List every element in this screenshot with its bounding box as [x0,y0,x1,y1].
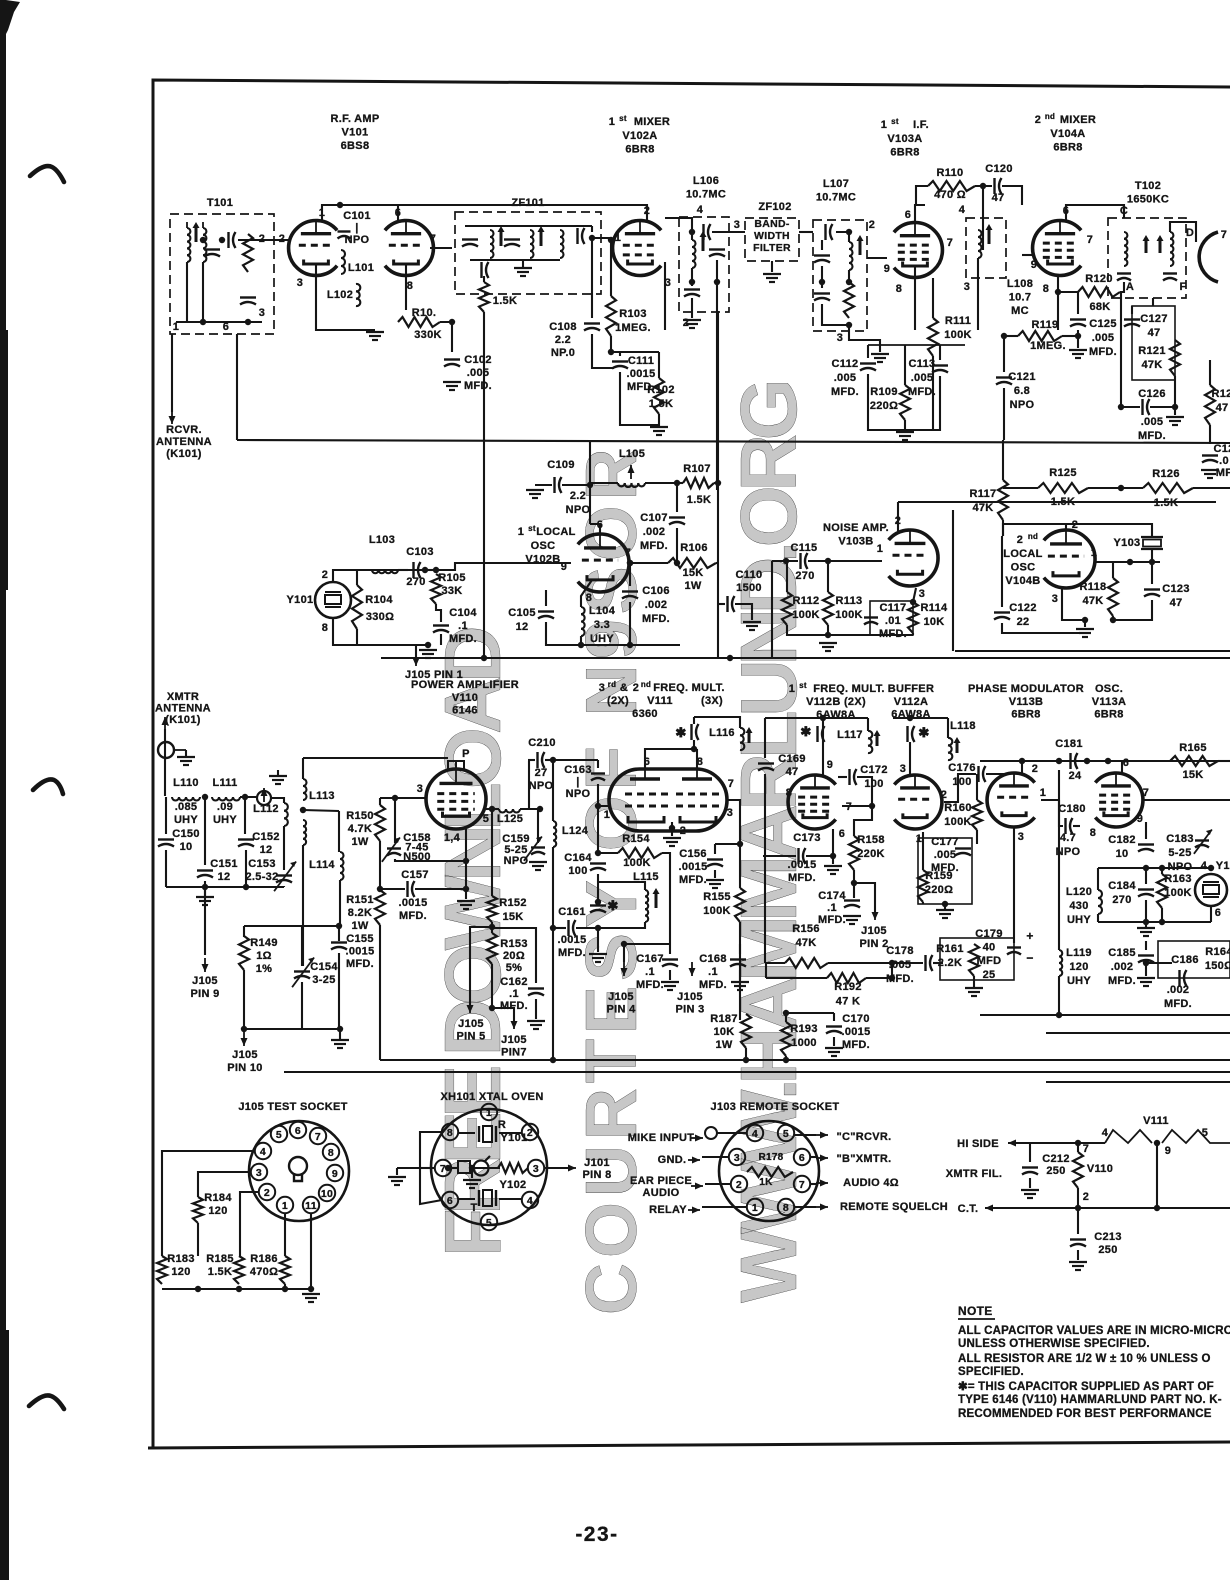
ct wire [985,1207,1230,1209]
resistor R109 [900,385,910,420]
V102B grid wire out [628,562,668,564]
tank down wire [693,740,695,749]
inductor L120 coil [1098,890,1102,898]
svg-text:3: 3 [727,807,733,819]
rcvr antenna wire [171,334,173,412]
svg-text:LOCAL: LOCAL [1003,548,1042,560]
svg-text:(2X): (2X) [607,695,629,707]
ZF101 to AVC wire [483,276,485,282]
wire dots filament [1075,1140,1081,1146]
capacitor C163 [591,772,605,774]
capacitor C213 [1070,1238,1086,1240]
ground R109 [896,431,914,433]
svg-text:C163: C163 [564,764,592,776]
svg-text:I.F.: I.F. [913,119,929,131]
T102 cap 1 [1117,272,1131,274]
V113A plate wire [1121,761,1123,773]
svg-text:XMTR: XMTR [167,691,199,703]
R120 left wire [1058,291,1078,293]
c163 wire top [553,759,598,761]
svg-text:R193: R193 [790,1023,818,1035]
J105 pin2 arrow [874,906,876,920]
C162 gnd wire [535,999,537,1019]
resistor R159 [918,870,928,902]
XH101 pin 3 [528,1160,544,1176]
inductor L107 dashed box [813,220,867,331]
second IF bus wire [867,345,869,358]
svg-text:4: 4 [959,204,966,216]
earpiece to pin2 wire [705,1183,731,1185]
noise amp top wire [898,501,1216,503]
svg-text:.1: .1 [509,988,519,1000]
svg-text:5: 5 [486,1217,492,1229]
svg-text:C154: C154 [310,961,338,973]
svg-text:6146: 6146 [452,705,478,717]
resistor R160 [972,800,982,830]
svg-text:C110: C110 [736,569,763,581]
svg-text:LOCAL: LOCAL [536,526,575,538]
V104B grid wire [1094,561,1130,563]
ground xmtr bus [196,896,214,898]
inductor L113 coil lower [303,820,306,826]
Y102 oven wires [458,1198,475,1200]
capacitor C184 [1138,888,1154,890]
R152 top wire [491,809,493,896]
c185 topw [1145,941,1147,950]
V102A cathode wire [664,262,666,330]
c173 gnd wire [832,856,834,864]
c182 topwire [1145,822,1147,839]
J105 pin3 wire [198,1172,251,1197]
ZF101 coil 1 [490,230,494,237]
svg-text:R164: R164 [1205,946,1230,958]
R153 bottom wire [491,964,493,1008]
svg-text:C150: C150 [172,828,200,840]
svg-text:C181: C181 [1055,738,1083,750]
L107 wire mid [848,270,850,282]
inductor L105 [618,483,625,486]
svg-text:47K: 47K [1141,359,1162,371]
J105 pin5 wire [470,927,492,1005]
capacitor C155 [331,941,347,943]
svg-text:1650KC: 1650KC [1127,194,1169,206]
ground C170 [825,1047,843,1049]
ZF101 series cap [480,262,482,278]
wire dot r193 bot [783,1057,789,1063]
svg-text:10: 10 [180,841,193,853]
C150 wires [165,797,167,834]
capacitor C170 [826,1025,842,1027]
svg-text:2.2: 2.2 [570,490,586,502]
resistor R101 [398,317,440,327]
T102 coil 2 [1170,232,1173,239]
svg-text:1: 1 [881,119,887,131]
C106 wires [629,563,631,586]
svg-text:250: 250 [1098,1244,1117,1256]
Y101 top wire [333,570,425,582]
wire dot r149 [241,1026,247,1032]
L106 cap right [709,248,725,250]
svg-text:C168: C168 [699,953,727,965]
pentode V103A [894,222,943,277]
svg-text:Y103: Y103 [1114,537,1141,549]
V113A grid out wire [1143,799,1230,801]
svg-text:C.T.: C.T. [958,1203,979,1215]
T102 secondary out [1170,222,1196,242]
ground oven left [388,1176,406,1178]
wire dot r154 [595,850,601,856]
Y103 bottom wire [1151,550,1153,562]
L118 wires [947,718,949,738]
svg-text:3: 3 [599,682,605,694]
ground C126 [1166,416,1184,418]
resistor R114 [908,602,918,633]
J103 pin 7 [794,1176,810,1192]
svg-text:2.2: 2.2 [555,334,571,346]
L107 out wire [849,325,880,352]
svg-text:150Ω: 150Ω [1205,960,1230,972]
svg-text:Y102: Y102 [500,1179,527,1191]
wire dot r156 [889,960,895,966]
svg-text:L112: L112 [253,803,279,815]
right edge wire top [1209,360,1211,385]
svg-text:.005: .005 [934,849,957,861]
svg-text:-23-: -23- [575,1523,618,1546]
svg-text:R117: R117 [970,488,997,500]
svg-text:A: A [1126,281,1134,293]
C123 wires [1151,562,1153,584]
svg-text:3: 3 [1018,831,1024,843]
v112b grid7 wire [842,805,872,807]
wire dot L111 out [242,794,248,800]
wire dot r152 bottom [489,924,495,930]
svg-text:2: 2 [1083,1191,1089,1203]
pa section right vertical [379,925,381,1060]
svg-text:.002: .002 [645,599,668,611]
resistor R102 [654,378,664,414]
triode V101b [385,221,434,276]
svg-text:120: 120 [208,1205,227,1217]
C123 down wire [1113,600,1152,620]
ZF101 coil 2 [530,230,534,237]
J103 pin 4 [747,1125,763,1141]
long vertical x718 [717,311,719,658]
ct arrow [985,1207,997,1209]
L111 out wire [240,796,258,798]
svg-text:T: T [470,1202,477,1214]
C109 out wire [562,484,590,486]
svg-text:MFD.: MFD. [908,386,936,398]
wire dot v110 out [489,806,495,812]
R154 right wire [662,853,670,944]
xmtr antenna wire [164,729,166,796]
svg-text:1MEG.: 1MEG. [615,322,651,334]
svg-text:6: 6 [1215,907,1221,919]
svg-text:L125: L125 [497,813,523,825]
svg-text:C101: C101 [343,210,371,222]
svg-text:REMOTE SQUELCH: REMOTE SQUELCH [840,1201,948,1213]
svg-text:R152: R152 [499,897,527,909]
capacitor C210 [536,752,538,768]
svg-text:270: 270 [406,576,425,588]
svg-text:C170: C170 [842,1013,870,1025]
C157 out wire [415,888,466,890]
R155 wires [739,844,741,888]
wire dots ct [1075,1205,1081,1211]
resistor R183 [157,1256,167,1284]
J105 pin 1 [277,1197,293,1213]
C167 gnd wire [669,970,671,980]
svg-text:|: | [576,776,579,788]
svg-text:120: 120 [171,1266,190,1278]
C109 gnd wire [535,484,552,486]
svg-text:MFD.: MFD. [399,910,427,922]
svg-text:.0015: .0015 [557,934,586,946]
svg-text:1: 1 [604,809,610,821]
ground xmtr connector [177,756,195,758]
resistor R149 [239,936,249,970]
XH101 pin 1 [481,1104,497,1120]
capacitor C102 [444,358,460,360]
right edge wires [1209,425,1211,444]
socket J105 outer circle [249,1121,349,1221]
resistor R153 [487,933,497,964]
v113b grid wire [1041,799,1059,801]
c180 right [1073,825,1080,827]
svg-text:MFD.: MFD. [1138,430,1166,442]
svg-text:L106: L106 [693,175,719,187]
svg-text:6BS8: 6BS8 [341,140,370,152]
svg-text:J105: J105 [458,1018,484,1030]
svg-text:.002: .002 [1167,984,1190,996]
L108 slug arrow [988,228,991,244]
buffer col wire [891,963,893,978]
svg-text:270: 270 [1112,894,1131,906]
svg-text:UHY: UHY [1067,975,1091,987]
capacitor C179D electrolytic [1007,946,1021,948]
svg-text:BAND-: BAND- [754,218,790,230]
capacitor C125 [1070,318,1086,320]
C167 wires [669,944,671,954]
ground L107 [871,353,889,355]
svg-text:10K: 10K [713,1026,734,1038]
oven center gnd stub [471,1168,473,1178]
V112A top wire [893,717,948,719]
svg-text:4: 4 [527,1195,533,1207]
wire dot v112a top [907,715,913,721]
L112 connector circle [257,791,271,805]
V111 plate right [682,777,712,780]
svg-text:NPO: NPO [1010,399,1035,411]
C162 top wire [492,928,536,983]
wire dot c173 out [830,853,836,859]
oven pin7 wires [420,1167,435,1169]
C110 wires [718,603,725,605]
C105 bottom wire [546,622,581,645]
wire dot c115 left [783,558,789,564]
svg-text:3: 3 [297,277,303,289]
svg-text:C12: C12 [1213,443,1230,455]
svg-text:1: 1 [1091,547,1097,559]
C168 gnd wire [739,970,741,980]
svg-text:C180: C180 [1058,803,1086,815]
c184 bot [1145,900,1147,922]
svg-text:2: 2 [527,1127,533,1139]
L116 slug arrow [748,731,751,743]
xmtr gnd stub [204,887,206,897]
resistor R112 [782,592,792,625]
wire dot l104 [578,642,584,648]
wire dot r150 r151 [377,886,383,892]
R149 wires [243,926,245,937]
XH101 pin 6 [442,1192,458,1208]
C121 wires [1003,336,1005,372]
capacitor C174 [844,899,860,901]
svg-text:R149: R149 [250,937,278,949]
tank top vertical [693,717,695,724]
capacitor C168 [730,958,746,960]
svg-text:MC: MC [1011,305,1029,317]
resistor R163 [1157,874,1167,908]
ZF101 slug 1 [500,230,503,246]
inductor L124 coil [553,821,556,828]
R114 bottom wire [912,633,914,635]
C155 down wire [302,953,339,1029]
svg-text:st: st [528,524,536,533]
R125 wires [1003,487,1038,489]
capacitor C109 [553,477,555,493]
ground C173 [824,865,842,867]
c172 wire left [838,776,847,778]
Y102 oven wire right [499,1198,522,1200]
svg-text:6BR8: 6BR8 [1094,709,1123,721]
svg-text:2: 2 [633,682,639,694]
svg-text:C126: C126 [1138,388,1166,400]
capacitor C112 [860,362,876,364]
tube V111 6360 stadium [609,769,727,831]
svg-text:8: 8 [896,283,902,295]
schematic border frame [153,80,1230,1447]
V101 grid input wire [238,239,290,241]
J105pin2 wire [854,883,875,912]
crystal Y101 circle [315,582,351,618]
c174 stub [853,883,855,898]
svg-text:|: | [355,222,358,234]
wire dot c163 [595,803,601,809]
svg-text:J105: J105 [608,991,634,1003]
svg-text:9: 9 [884,263,890,275]
Y103 wires [1066,524,1152,536]
C158 bottom wire [395,859,466,861]
wire dot r120 [1055,289,1061,295]
R111 wires [932,278,934,318]
svg-text:1: 1 [877,543,883,555]
C126 wires [1121,292,1140,407]
L114 bottom stub [339,880,341,926]
wire dot r107 top [715,480,721,486]
capacitor C185 [1138,954,1154,956]
ZF102 out wire [799,231,813,233]
L107 cap left lower [814,292,830,294]
svg-text:8: 8 [786,787,792,799]
C103 out wire [421,569,436,571]
svg-text:SPECIFIED.: SPECIFIED. [958,1366,1024,1378]
svg-text:L118: L118 [950,720,976,732]
capacitor C107 [669,516,685,518]
resistor R118 [1108,578,1118,616]
capacitor C151 [197,869,213,871]
svg-text:R187: R187 [710,1013,738,1025]
resistor R105 [431,574,441,604]
J105 bottom bus [162,1288,311,1290]
Y104 crystal circle [1195,874,1227,906]
L112 ground wire [277,770,279,776]
C125 wires [1077,292,1079,314]
C178 out wire [933,962,943,964]
svg-text:R107: R107 [683,463,711,475]
svg-text:R151: R151 [346,894,374,906]
V101 plate wire [322,205,465,221]
svg-text:"C"RCVR.: "C"RCVR. [837,1131,892,1143]
capacitor C154 variable [294,970,310,972]
R101 output wire [440,322,452,352]
svg-text:XMTR FIL.: XMTR FIL. [946,1168,1002,1180]
svg-text:100K: 100K [944,329,972,341]
svg-text:C127: C127 [1140,313,1168,325]
R102 C111 wires [611,336,620,356]
svg-text:R159: R159 [925,870,953,882]
svg-text:.0015: .0015 [626,368,655,380]
svg-text:L113: L113 [309,790,335,802]
svg-text:8.2K: 8.2K [348,907,372,919]
top-left corner mark [6,0,20,34]
V102A plate top wire [465,205,647,220]
wire dot r193 top [783,1010,789,1016]
J105 pin1 lower wire [284,1284,286,1289]
J103 pin 2 [731,1176,747,1192]
ground C185 [1137,977,1155,979]
svg-text:100: 100 [864,778,883,790]
cut cap right edge [1202,454,1218,456]
svg-text:V102A: V102A [622,130,657,142]
wire dot c109 [587,482,593,488]
transformer T102 dashed box [1108,218,1186,298]
svg-text:C108: C108 [549,321,577,333]
L106 out wire [712,231,745,233]
capacitor C159 variable [531,846,545,848]
svg-text:BUFFER: BUFFER [888,683,934,695]
V101b cathode wire [405,264,407,310]
capacitor C183 variable [1195,839,1209,841]
T101 coupling capacitor [227,232,229,248]
R156 wires [765,962,785,964]
svg-text:C102: C102 [464,354,492,366]
svg-text:J105: J105 [192,975,218,987]
ground C109 [526,489,544,491]
svg-text:8: 8 [1090,827,1096,839]
R193 bottom wire [785,1056,787,1060]
L105 wires [590,482,618,484]
svg-text:.005: .005 [1141,416,1164,428]
wire dot v102b grid [627,560,633,566]
J105 pin9 wire [204,887,206,955]
wire dot v110 cath [463,858,469,864]
svg-text:J105: J105 [232,1049,258,1061]
ZF101 out wire [591,226,593,232]
svg-text:1W: 1W [684,580,701,592]
R165 right wire [1218,760,1230,762]
wire dots xmtr bus [202,884,208,890]
